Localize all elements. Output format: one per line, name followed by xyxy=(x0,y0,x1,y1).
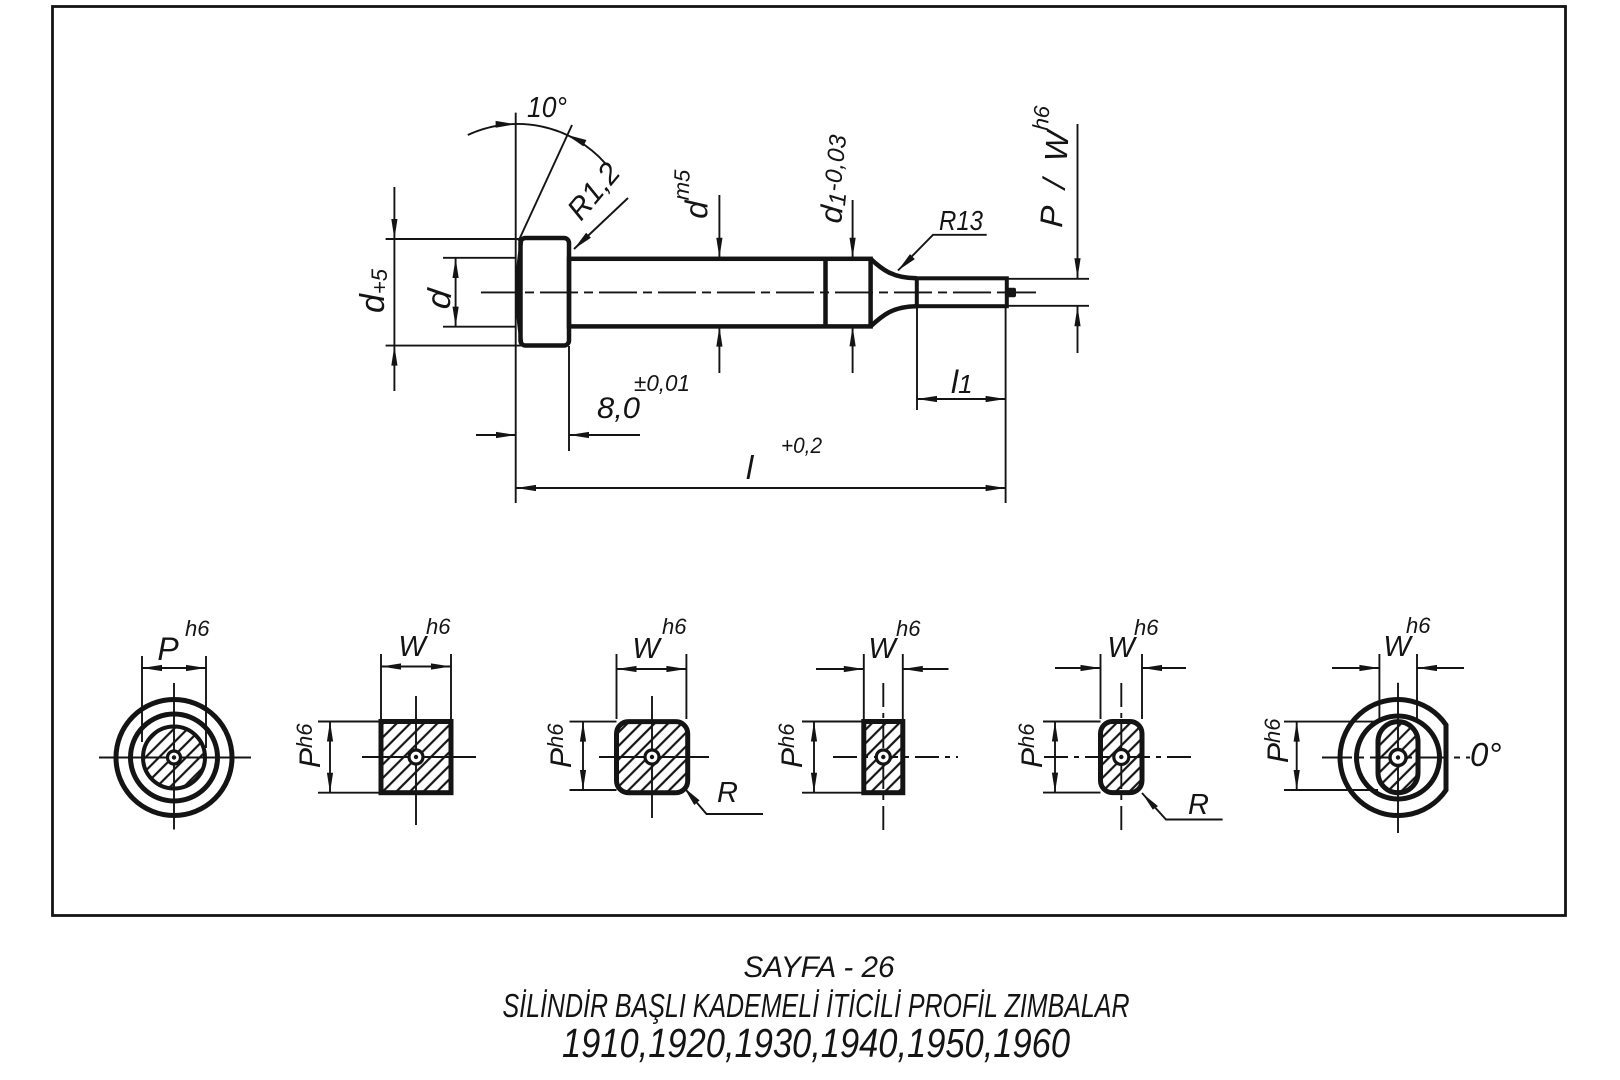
svg-text:10°: 10° xyxy=(527,92,567,124)
svg-text:SAYFA - 26: SAYFA - 26 xyxy=(744,951,895,984)
svg-text:W: W xyxy=(868,633,898,665)
svg-text:l: l xyxy=(746,449,755,486)
svg-text:R13: R13 xyxy=(939,205,983,236)
svg-text:h6: h6 xyxy=(185,616,210,641)
svg-text:+0,2: +0,2 xyxy=(781,433,822,458)
svg-text:Ph6: Ph6 xyxy=(774,723,809,768)
svg-text:d1-0,03: d1-0,03 xyxy=(813,133,858,225)
svg-text:W: W xyxy=(398,631,428,663)
svg-text:Ph6: Ph6 xyxy=(1014,723,1049,768)
svg-text:0°: 0° xyxy=(1470,736,1502,773)
svg-text:±0,01: ±0,01 xyxy=(634,370,690,396)
svg-text:Ph6: Ph6 xyxy=(1260,718,1295,763)
svg-text:SİLİNDİR BAŞLI KADEMELİ İTİCİL: SİLİNDİR BAŞLI KADEMELİ İTİCİLİ PROFİL Z… xyxy=(503,987,1130,1024)
svg-text:P: P xyxy=(157,631,179,667)
svg-text:R1,2: R1,2 xyxy=(561,157,627,227)
svg-text:h6: h6 xyxy=(662,614,687,639)
svg-text:Ph6: Ph6 xyxy=(292,723,327,768)
svg-text:W: W xyxy=(632,633,662,665)
svg-text:h6: h6 xyxy=(896,616,921,641)
svg-text:h6: h6 xyxy=(1406,613,1431,638)
svg-text:1910,1920,1930,1940,1950,1960: 1910,1920,1930,1940,1950,1960 xyxy=(562,1020,1070,1066)
svg-text:d: d xyxy=(419,286,459,311)
svg-text:Ph6: Ph6 xyxy=(543,723,578,768)
svg-text:dm5: dm5 xyxy=(668,169,716,220)
svg-text:P / Wh6: P / Wh6 xyxy=(1021,104,1077,228)
svg-text:d+5: d+5 xyxy=(354,268,392,313)
svg-text:R: R xyxy=(717,777,738,809)
svg-text:h6: h6 xyxy=(1134,615,1159,640)
svg-text:R: R xyxy=(1188,789,1209,821)
svg-text:l1: l1 xyxy=(951,364,973,400)
svg-text:8,0: 8,0 xyxy=(597,392,640,425)
svg-text:h6: h6 xyxy=(426,614,451,639)
svg-text:W: W xyxy=(1107,632,1137,664)
